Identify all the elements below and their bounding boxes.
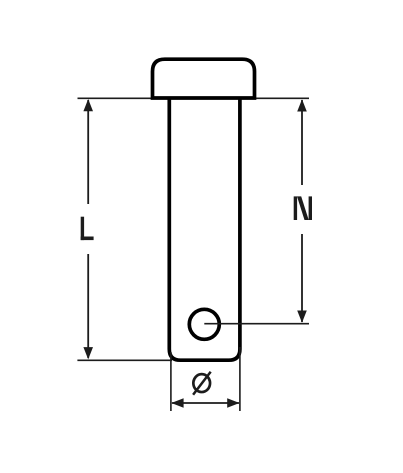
label N: [294, 196, 312, 220]
label diameter: [193, 372, 211, 395]
dimension line N (lower segment): [301, 234, 303, 322]
arrowhead diameter right: [227, 398, 239, 408]
extension line diameter right: [239, 347, 241, 411]
dimension line L (upper segment): [87, 100, 89, 204]
dimension line diameter: [172, 402, 239, 404]
arrowhead L bottom: [83, 347, 93, 359]
dimension line L (lower segment): [87, 254, 89, 358]
arrowhead N top: [297, 99, 307, 111]
arrowhead L top: [83, 99, 93, 111]
hole in shaft: [189, 309, 219, 339]
extension line bottom left: [77, 359, 172, 361]
dimension line N (upper segment): [301, 100, 303, 185]
arrowhead N bottom: [297, 311, 307, 323]
hole centerline to N dimension: [204, 323, 309, 325]
label L: [81, 217, 94, 240]
pin shaft: [169, 98, 240, 360]
extension line diameter left: [170, 352, 172, 411]
extension line top (under head): [78, 97, 310, 99]
pin head: [153, 59, 255, 98]
arrowhead diameter left: [171, 398, 183, 408]
